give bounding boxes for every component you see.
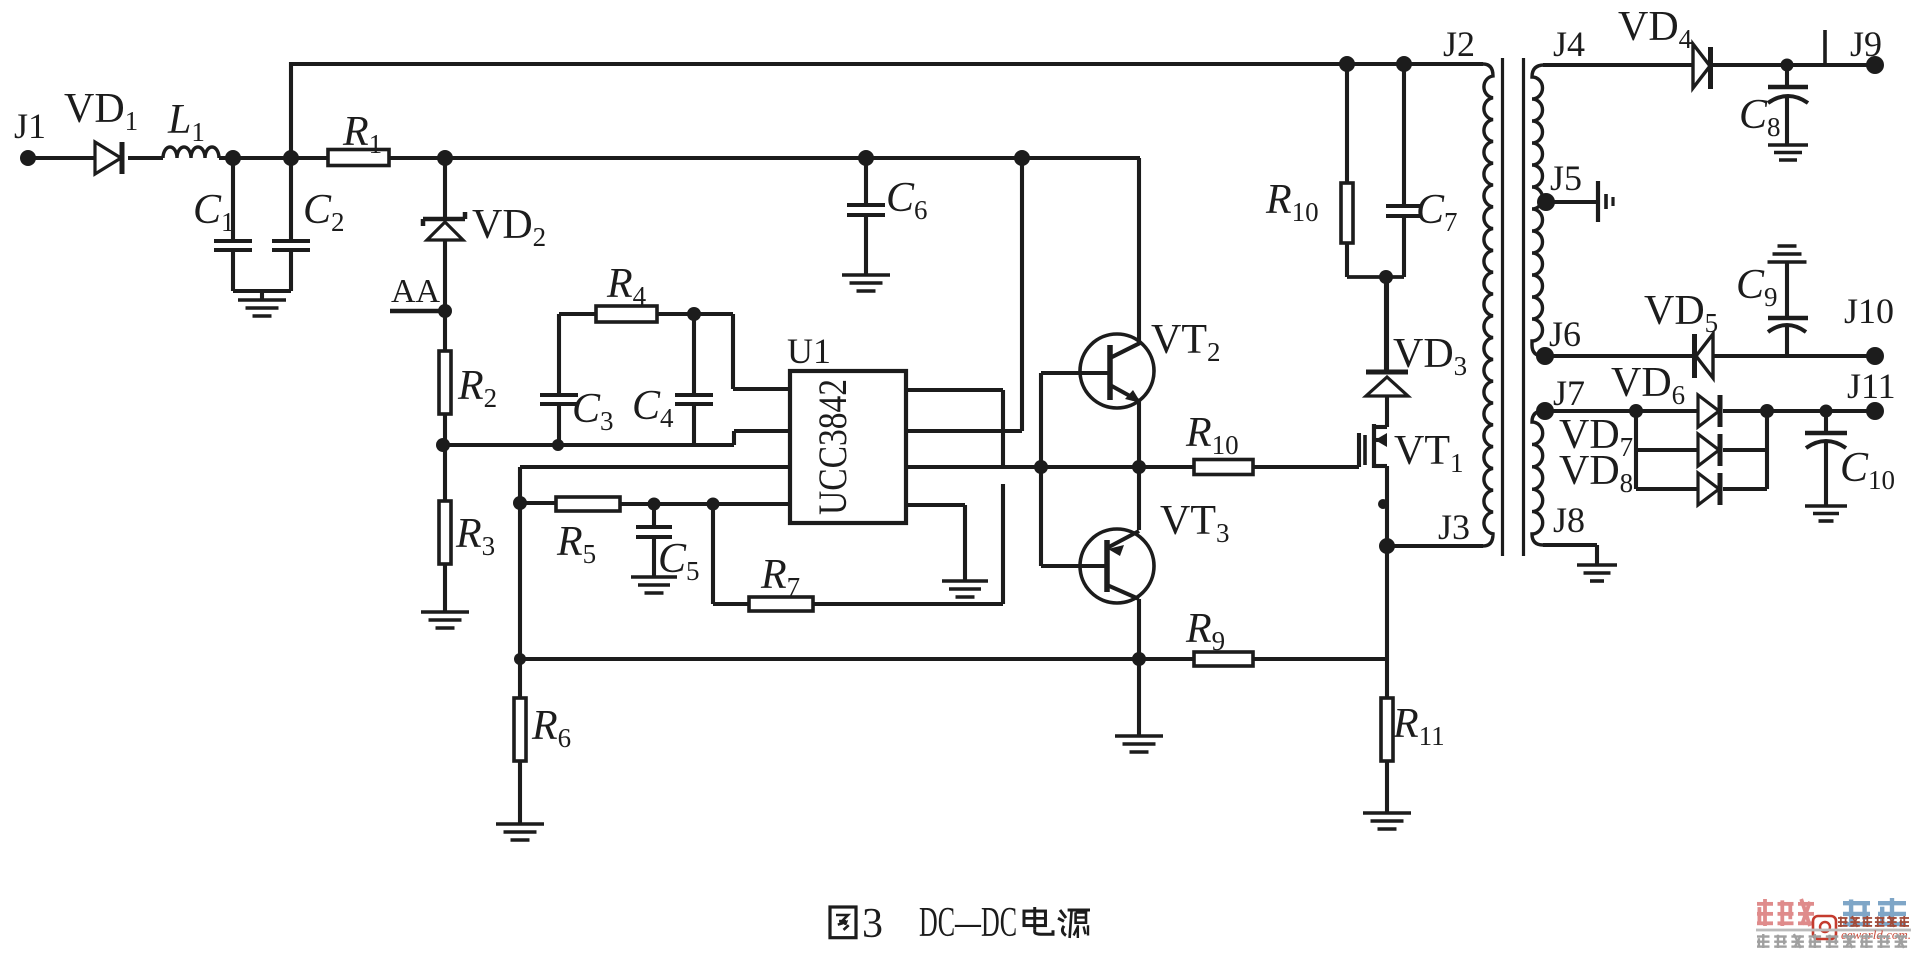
svg-text:U1: U1: [787, 331, 831, 371]
svg-text:J4: J4: [1553, 24, 1585, 64]
svg-text:J5: J5: [1550, 158, 1582, 198]
svg-text:DC—DC: DC—DC: [919, 900, 1017, 946]
svg-text:J8: J8: [1553, 500, 1585, 540]
svg-text:J10: J10: [1844, 291, 1894, 331]
svg-text:J6: J6: [1549, 314, 1581, 354]
svg-text:UCC3842: UCC3842: [810, 379, 855, 515]
svg-text:AA: AA: [391, 273, 441, 310]
svg-text:J11: J11: [1847, 366, 1896, 406]
svg-text:J1: J1: [14, 106, 46, 146]
svg-text:J7: J7: [1553, 373, 1585, 413]
svg-text:J3: J3: [1438, 507, 1470, 547]
svg-text:J2: J2: [1443, 24, 1475, 64]
svg-text:3: 3: [862, 901, 883, 947]
svg-text:J9: J9: [1850, 24, 1882, 64]
